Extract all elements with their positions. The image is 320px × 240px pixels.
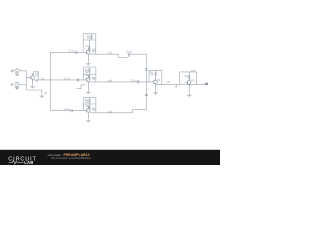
svg-text:C3 1u: C3 1u [64,79,71,81]
svg-text:vout: vout [191,70,196,73]
svg-text:R10: R10 [185,76,190,78]
svg-text:C2 1u: C2 1u [69,51,76,53]
svg-text:C4 1u: C4 1u [64,109,71,111]
svg-text:out1: out1 [108,52,113,55]
svg-text:C6 1u: C6 1u [131,80,138,82]
svg-text:LAB: LAB [24,160,33,165]
svg-text:out2: out2 [108,79,113,82]
svg-text:C5 1u: C5 1u [126,51,133,53]
svg-text:http://circuitlab.com/c8k4qr58: http://circuitlab.com/c8k4qr58kq3kp/ [51,157,91,160]
svg-text:out3: out3 [108,111,113,114]
svg-text:schematic : PREAMPLAB10: schematic : PREAMPLAB10 [48,153,90,157]
svg-text:out: out [205,83,209,86]
